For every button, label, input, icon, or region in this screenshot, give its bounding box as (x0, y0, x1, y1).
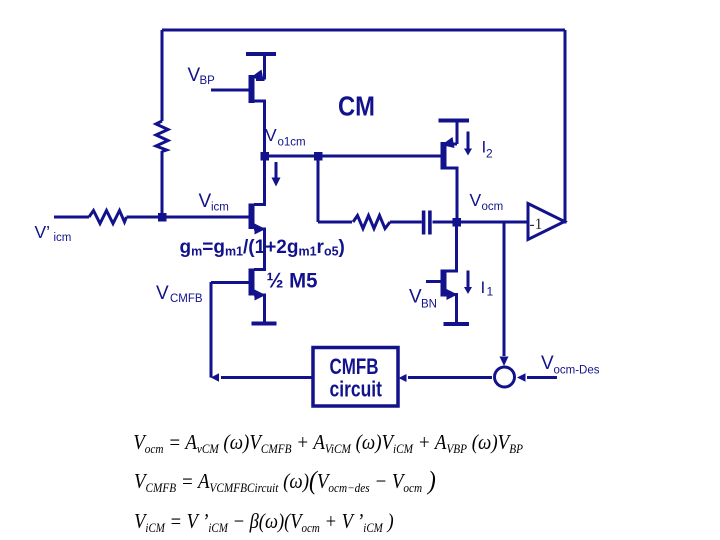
svg-text:1: 1 (487, 285, 494, 299)
svg-text:2: 2 (486, 147, 493, 161)
svg-text:Vocm = AvCM (ω)VCMFB + AViCM (: Vocm = AvCM (ω)VCMFB + AViCM (ω)ViCM + A… (133, 431, 523, 456)
svg-text:gm=gm1/(1+2gm1ro5): gm=gm1/(1+2gm1ro5) (180, 237, 345, 259)
svg-text:ViCM = V ’iCM − β(ω)(Vocm + V: ViCM = V ’iCM − β(ω)(Vocm + V ’iCM ) (134, 510, 394, 535)
svg-text:icm: icm (211, 202, 229, 214)
svg-text:BP: BP (200, 75, 216, 87)
svg-text:I: I (481, 278, 486, 297)
svg-text:CMFB: CMFB (330, 354, 379, 379)
svg-text:ocm: ocm (482, 201, 504, 213)
svg-text:VCMFB = AVCMFBCircuit (ω)(Vocm: VCMFB = AVCMFBCircuit (ω)(Vocm−des − Voc… (134, 467, 436, 495)
svg-text:circuit: circuit (330, 377, 383, 402)
svg-text:V: V (265, 125, 277, 145)
svg-text:V: V (156, 283, 169, 304)
svg-text:V’: V’ (35, 222, 51, 242)
svg-text:icm: icm (54, 232, 72, 244)
svg-text:V: V (541, 353, 554, 374)
svg-text:V: V (470, 190, 482, 210)
svg-text:½ M5: ½ M5 (267, 269, 318, 293)
svg-text:V: V (199, 191, 212, 212)
svg-text:BN: BN (421, 299, 437, 311)
svg-text:-1: -1 (530, 216, 543, 233)
svg-text:ocm-Des: ocm-Des (554, 365, 600, 377)
svg-text:o1cm: o1cm (278, 137, 306, 149)
svg-text:CM: CM (338, 91, 375, 122)
svg-text:CMFB: CMFB (170, 293, 203, 305)
